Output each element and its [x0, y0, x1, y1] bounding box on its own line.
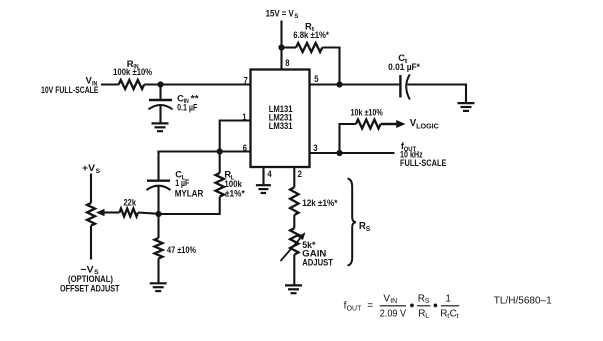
svg-text:S: S	[96, 168, 101, 175]
wire 10k branch riser	[340, 124, 356, 153]
svg-text:47 ±10%: 47 ±10%	[167, 245, 196, 255]
svg-text:+V: +V	[82, 162, 96, 173]
resistor 47 ohm	[157, 214, 159, 238]
svg-text:6.8k ±1%*: 6.8k ±1%*	[293, 30, 329, 40]
ground under 5k	[285, 285, 302, 293]
svg-text:2.09 V: 2.09 V	[380, 308, 406, 319]
ground right of Ct	[458, 103, 475, 111]
resistor RIN 100k	[119, 80, 145, 89]
wire 5k to ground	[293, 255, 295, 286]
svg-text:0.01 µF*: 0.01 µF*	[388, 62, 420, 72]
node Rt/pin5/Ct junction	[336, 81, 342, 87]
formula dot 1	[410, 304, 414, 308]
svg-text:15V = V: 15V = V	[266, 7, 295, 18]
svg-text:±1%*: ±1%*	[225, 188, 245, 198]
resistor 22k	[120, 209, 139, 217]
svg-text:−V: −V	[81, 263, 95, 274]
node pin1/pin6/RL junction	[217, 148, 223, 154]
formula dot 2	[434, 304, 438, 308]
resistor 12k 1%	[290, 187, 298, 215]
svg-text:TL/H/5680–1: TL/H/5680–1	[494, 295, 552, 306]
wire pin 3 output	[310, 152, 395, 154]
svg-text:FULL-SCALE: FULL-SCALE	[400, 158, 446, 168]
svg-text:2: 2	[298, 169, 302, 179]
svg-text:8: 8	[285, 58, 289, 68]
resistor Rt 6.8k	[296, 43, 322, 52]
svg-text:OUT: OUT	[347, 306, 363, 313]
wire pin 2 stub	[293, 167, 295, 187]
resistor 10k pull-up	[356, 120, 381, 129]
svg-text:C: C	[450, 308, 457, 319]
svg-text:10V FULL-SCALE: 10V FULL-SCALE	[41, 85, 99, 95]
svg-text:1: 1	[445, 294, 451, 305]
brace RS	[348, 179, 357, 266]
ground under CIN	[152, 123, 169, 131]
wire RIN to pin 7	[144, 83, 250, 85]
wire Rt left lead	[282, 46, 297, 48]
wire input VIN to RIN	[101, 83, 119, 85]
svg-text:S: S	[294, 13, 299, 20]
potentiometer offset adjust	[90, 174, 92, 204]
svg-text:10k ±10%: 10k ±10%	[351, 107, 383, 117]
svg-text:ADJUST: ADJUST	[302, 257, 333, 267]
svg-text:LOGIC: LOGIC	[416, 124, 439, 131]
node VS/Rt/pin8 junction	[278, 44, 284, 50]
capacitor CIN 0.1uF	[149, 99, 172, 101]
svg-text:(OPTIONAL): (OPTIONAL)	[68, 274, 113, 284]
svg-text:L: L	[425, 313, 429, 320]
wire Rt right lead down to pin 5	[322, 48, 339, 85]
wire 12k to 5k pot	[293, 215, 295, 228]
wire CL bottom stem	[157, 187, 159, 215]
svg-text:S: S	[425, 298, 430, 305]
capacitor Ct 0.01uF	[399, 75, 401, 98]
wire arrow to VLOGIC	[381, 123, 398, 126]
node CL/22k/47 junction	[155, 211, 161, 217]
svg-text:100k ±10%: 100k ±10%	[113, 67, 152, 77]
capacitor CL 1uF mylar	[147, 179, 170, 181]
wire Ct to ground	[408, 85, 467, 104]
wire CIN stem	[159, 85, 161, 124]
wire 22k to junction	[138, 213, 159, 214]
node RIN/CIN/pin7 junction	[157, 81, 163, 87]
svg-text:S: S	[366, 226, 371, 233]
svg-text:t: t	[457, 313, 459, 320]
wire pin 5 to Ct	[310, 83, 401, 85]
svg-text:0.1 µF: 0.1 µF	[177, 102, 198, 112]
resistor RL 100k	[219, 152, 221, 174]
ground under 47 ohm	[150, 283, 167, 291]
potentiometer 5k gain adjust	[290, 228, 298, 254]
node pin3/10k junction	[336, 150, 342, 156]
svg-text:5: 5	[314, 74, 318, 84]
svg-text:4: 4	[267, 169, 272, 179]
svg-text:3: 3	[313, 143, 317, 153]
svg-text:=: =	[367, 300, 373, 311]
wire pin 1	[220, 121, 251, 152]
ground under pin 4	[256, 185, 271, 193]
svg-text:OFFSET ADJUST: OFFSET ADJUST	[60, 284, 120, 294]
svg-text:1 µF: 1 µF	[175, 178, 189, 188]
IC U1 LM131/LM231/LM331	[251, 70, 310, 168]
wiper arrow into pot	[96, 209, 105, 217]
wire pin 6 to CL	[159, 152, 251, 180]
svg-text:MYLAR: MYLAR	[175, 188, 204, 198]
svg-text:12k ±1%*: 12k ±1%*	[302, 198, 338, 208]
svg-text:7: 7	[244, 75, 248, 85]
svg-text:22k: 22k	[124, 197, 137, 207]
wire VS supply vertical to pin 8	[280, 21, 282, 70]
svg-text:LM331: LM331	[269, 121, 293, 132]
svg-text:IN: IN	[390, 298, 397, 305]
wire pin 4 stub	[262, 167, 264, 185]
